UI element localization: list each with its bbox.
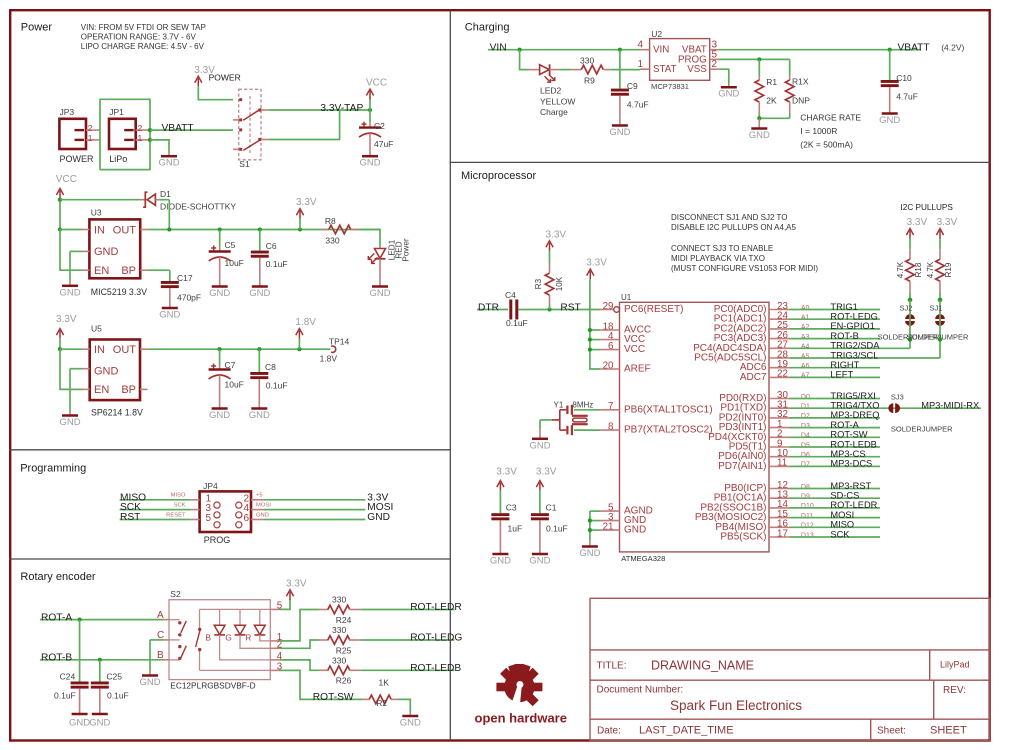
supply VCC arrow at 3.3V-TAP [369, 98, 371, 111]
svg-text:GND: GND [159, 310, 180, 321]
svg-text:GND: GND [69, 718, 90, 729]
svg-text:Rotary encoder: Rotary encoder [20, 571, 96, 583]
svg-text:A1: A1 [801, 315, 810, 322]
svg-text:C2: C2 [374, 121, 385, 131]
svg-text:6: 6 [244, 513, 250, 524]
svg-text:Y1: Y1 [554, 401, 564, 410]
svg-text:C8: C8 [265, 362, 276, 372]
junction at U3 IN [58, 227, 62, 231]
JP3 pin 1 [86, 139, 100, 141]
svg-text:PB5(SCK): PB5(SCK) [720, 532, 766, 543]
ground below C9 [612, 124, 628, 127]
wire VIN to LED2 [520, 50, 530, 70]
svg-text:ROT-B: ROT-B [41, 653, 72, 664]
connector JP1 LiPo [109, 119, 136, 149]
svg-text:0.1uF: 0.1uF [546, 524, 568, 534]
svg-text:330: 330 [580, 56, 594, 66]
capacitor C17 470pF [148, 269, 170, 271]
svg-text:PB6(XTAL1TOSC1): PB6(XTAL1TOSC1) [624, 404, 713, 415]
svg-text:TRIG2/SDA: TRIG2/SDA [830, 341, 880, 351]
svg-text:D12: D12 [801, 523, 814, 530]
svg-text:G: G [225, 633, 232, 643]
svg-text:Microprocessor: Microprocessor [461, 170, 537, 182]
svg-text:D10: D10 [801, 503, 814, 510]
svg-text:MP3-MIDI-RX: MP3-MIDI-RX [921, 401, 979, 411]
svg-text:LAST_DATE_TIME: LAST_DATE_TIME [639, 725, 734, 737]
svg-text:VIN: VIN [490, 43, 507, 54]
junction R19/SJ1 [938, 298, 943, 303]
svg-text:REV:: REV: [943, 685, 966, 696]
svg-text:TRIG5/RXI: TRIG5/RXI [830, 391, 875, 401]
svg-text:3.3V-TAP: 3.3V-TAP [320, 103, 363, 114]
svg-text:Charge: Charge [540, 107, 568, 117]
capacitor C6 0.1uF [258, 227, 262, 231]
junction AVCC [588, 328, 592, 332]
wire U5 IN [60, 348, 82, 350]
svg-text:R1X: R1X [792, 77, 809, 87]
svg-text:Spark Fun Electronics: Spark Fun Electronics [670, 698, 802, 713]
junction D1/OUT [167, 227, 171, 231]
svg-text:SP6214 1.8V: SP6214 1.8V [91, 408, 143, 418]
microcontroller U1 ATMEGA328 [620, 302, 770, 552]
svg-text:C5: C5 [225, 240, 236, 250]
wire R18 through SJ2 to TRIG2/SDA [909, 300, 911, 348]
svg-text:SCK: SCK [174, 503, 186, 509]
wire R9 to STAT [611, 69, 640, 71]
diode D1 DIODE-SCHOTTKY [60, 199, 140, 201]
ground below C24 [72, 713, 88, 716]
svg-text:A3: A3 [801, 334, 810, 341]
svg-text:5: 5 [206, 513, 212, 524]
svg-text:A0: A0 [801, 305, 810, 312]
svg-text:GND: GND [94, 366, 119, 378]
svg-text:U3: U3 [91, 207, 102, 217]
svg-text:OUT: OUT [113, 224, 137, 236]
svg-text:I2C PULLUPS: I2C PULLUPS [901, 203, 954, 212]
wire OUT 3.3V rail [148, 229, 381, 231]
svg-text:10K: 10K [555, 276, 564, 291]
svg-text:SCK: SCK [830, 529, 850, 539]
svg-text:0.1uF: 0.1uF [506, 318, 528, 328]
svg-text:RESET: RESET [166, 512, 186, 518]
svg-text:GND: GND [529, 556, 550, 567]
ground below R2 [402, 715, 418, 718]
svg-text:ROT-LEDR: ROT-LEDR [410, 602, 462, 613]
wire SCK [120, 509, 191, 511]
svg-text:A4: A4 [801, 344, 810, 351]
junction VBATT/C10 [888, 48, 892, 52]
svg-text:Programming: Programming [20, 462, 86, 474]
svg-text:VSS: VSS [687, 64, 707, 75]
svg-text:JP4: JP4 [203, 481, 218, 491]
svg-text:MP3-DREQ: MP3-DREQ [830, 410, 879, 420]
wire to GND [264, 519, 365, 521]
svg-text:S2: S2 [170, 589, 181, 599]
ground symbol below JP1 [168, 152, 170, 157]
wire U5 OUT 1.8V rail [148, 348, 331, 350]
wire JP1 pin1 to ground [150, 140, 169, 152]
switch S1 DPDT [239, 89, 261, 160]
svg-text:MOSI: MOSI [256, 503, 271, 509]
svg-text:TRIG1: TRIG1 [830, 302, 857, 312]
svg-text:OUT: OUT [113, 344, 137, 356]
U2 pin 3 [710, 49, 719, 51]
junction at JP1 pin2 VBATT [148, 128, 152, 132]
svg-text:SJ3: SJ3 [891, 393, 904, 402]
ground below S2 C pin [142, 674, 158, 677]
S2 pin 1 [270, 640, 280, 642]
svg-text:A: A [157, 610, 164, 621]
svg-text:4.7K: 4.7K [896, 261, 905, 278]
svg-text:OPERATION RANGE: 3.7V - 6V: OPERATION RANGE: 3.7V - 6V [81, 33, 197, 42]
junction R1 bottom [757, 116, 761, 120]
svg-text:0.1uF: 0.1uF [266, 259, 288, 269]
U3 pin stubs [82, 229, 89, 231]
resistor R24 330 [320, 609, 329, 611]
supply 3.3V above R3 [549, 243, 551, 251]
svg-text:CHARGE RATE: CHARGE RATE [800, 113, 861, 123]
title block frame [590, 598, 990, 740]
svg-text:POWER: POWER [60, 154, 95, 164]
svg-text:GND: GND [209, 410, 230, 421]
svg-text:B: B [205, 633, 211, 643]
svg-text:3.3V: 3.3V [586, 258, 607, 269]
svg-text:DTR: DTR [478, 303, 499, 314]
wire ROT-A [40, 619, 164, 621]
svg-text:JP1: JP1 [109, 107, 124, 117]
svg-text:ROT-LEDG: ROT-LEDG [410, 633, 462, 644]
supply 3.3V for R19 [939, 231, 941, 239]
svg-text:D6: D6 [801, 452, 810, 459]
svg-text:TP14: TP14 [329, 336, 350, 346]
svg-text:VCC: VCC [366, 78, 387, 89]
S2 center switch [198, 628, 201, 631]
svg-text:GND: GND [89, 718, 110, 729]
svg-text:GND: GND [718, 89, 739, 100]
svg-text:DRAWING_NAME: DRAWING_NAME [651, 659, 754, 673]
svg-text:GND: GND [609, 127, 630, 138]
svg-text:RST: RST [560, 303, 580, 314]
junction PROG/R1 [757, 57, 761, 61]
JP4 pin 3 [190, 509, 199, 511]
svg-text:GND: GND [249, 410, 270, 421]
wire loop connecting JP3 and JP1 [100, 99, 150, 169]
svg-text:2: 2 [88, 123, 93, 133]
section divider Charging/Microprocessor [450, 161, 989, 163]
svg-text:ROT-SW: ROT-SW [830, 430, 867, 440]
ground below C3 [492, 553, 508, 556]
wire LED2 to R9 [559, 69, 571, 71]
JP4 pin 5 [190, 519, 199, 521]
svg-text:C1: C1 [546, 503, 557, 513]
supply 3.3V arrow rotary [280, 599, 290, 609]
svg-text:ROT-A: ROT-A [830, 420, 859, 430]
wire R2 to ground [398, 699, 410, 712]
svg-text:SD-CS: SD-CS [830, 491, 859, 501]
wire VBAT to VBATT [719, 49, 921, 51]
svg-text:GND: GND [158, 158, 179, 169]
svg-text:PB7(XTAL2TOSC2): PB7(XTAL2TOSC2) [624, 425, 713, 436]
LED LED2 YELLOW Charge [529, 69, 540, 71]
svg-text:ROT-A: ROT-A [41, 612, 72, 623]
svg-text:GND: GND [879, 115, 900, 126]
svg-text:330: 330 [332, 625, 346, 635]
svg-text:YELLOW: YELLOW [540, 96, 575, 106]
svg-text:DIODE-SCHOTTKY: DIODE-SCHOTTKY [160, 202, 236, 212]
svg-text:C: C [157, 630, 164, 641]
svg-text:0.1uF: 0.1uF [107, 691, 129, 701]
rotary encoder S2 EC12PLRGBSDVBF-D [169, 600, 270, 680]
svg-text:R25: R25 [336, 645, 352, 655]
svg-text:D3: D3 [801, 423, 810, 430]
ground below C17 [162, 307, 178, 310]
svg-text:Date:: Date: [597, 725, 621, 736]
resistor R3 10K [549, 305, 551, 310]
junction 3.3V-TAP [368, 108, 372, 112]
U5 pin stubs [82, 348, 90, 350]
svg-text:U5: U5 [91, 323, 102, 333]
svg-text:A6: A6 [801, 363, 810, 370]
S2 LED verticals [219, 609, 221, 625]
U2 pin 2 [710, 68, 719, 70]
capacitor C10 4.7uF [889, 50, 891, 80]
junction at JP1 pin1 GND [148, 138, 152, 142]
wire 3.3V to AVCC/VCC/AREF [590, 279, 600, 369]
svg-text:(MUST CONFIGURE VS1053 FOR MID: (MUST CONFIGURE VS1053 FOR MIDI) [671, 264, 818, 273]
svg-text:C9: C9 [627, 81, 638, 91]
svg-text:ROT-LEDB: ROT-LEDB [830, 439, 877, 449]
ground below R1 [751, 127, 767, 130]
svg-text:TRIG3/SCL: TRIG3/SCL [830, 350, 878, 360]
svg-text:3.3V: 3.3V [546, 229, 567, 240]
svg-text:LED2: LED2 [540, 86, 562, 96]
svg-text:SOLDERJUMPER: SOLDERJUMPER [891, 424, 953, 433]
wire VCC down to EN [60, 230, 82, 271]
S1 arm pole2 [243, 139, 261, 150]
junction VCC/D1 [58, 198, 62, 202]
ground below C7 [212, 407, 228, 410]
capacitor C25 0.1uF [99, 660, 101, 682]
svg-text:2: 2 [138, 123, 143, 133]
junction at U5 IN [58, 347, 62, 351]
wire ROT-LEDB [360, 669, 454, 671]
wire S2 pin3 ROT-SW [280, 670, 362, 699]
ground below U3 [62, 285, 78, 288]
svg-text:GND: GND [249, 288, 270, 299]
svg-text:GND: GND [624, 525, 646, 536]
capacitor C9 4.7uF [619, 50, 621, 89]
junction R18/SJ2 [908, 298, 913, 303]
svg-text:R26: R26 [336, 676, 352, 686]
wire to MOSI [264, 509, 365, 511]
section divider Power/Programming [9, 449, 450, 451]
resistor R1 2K [758, 59, 760, 75]
S2 arm C-B [181, 646, 187, 658]
LED B inside S2 [214, 625, 225, 634]
S1 throw stubs [233, 119, 241, 121]
svg-text:17: 17 [777, 528, 788, 539]
ground below C25 [92, 713, 108, 716]
svg-text:GND: GND [359, 158, 380, 169]
S1 contacts [239, 98, 242, 101]
svg-text:(4.2V): (4.2V) [941, 43, 964, 53]
svg-text:R9: R9 [584, 75, 595, 85]
svg-text:MOSI: MOSI [830, 510, 854, 520]
wire to 3.3V [264, 499, 365, 501]
resistor R8 330 [321, 229, 329, 231]
JP1 pin 1 [136, 139, 150, 141]
svg-text:R8: R8 [325, 216, 336, 226]
wire AGND/GND pins to ground [590, 510, 600, 512]
svg-text:4.7uF: 4.7uF [896, 92, 918, 102]
test point TP14 [331, 346, 336, 352]
svg-text:R2: R2 [376, 698, 387, 708]
U2 pin 4 [640, 49, 650, 51]
svg-text:U2: U2 [651, 29, 662, 39]
JP4 pin 4 [236, 512, 242, 518]
LED R inside S2 [254, 625, 265, 634]
ground below U5 [62, 414, 78, 417]
ground below C10 [882, 112, 898, 115]
resistor R2 1K [362, 698, 369, 700]
svg-text:TITLE:: TITLE: [597, 660, 627, 671]
S2 LED G to pin2 [240, 635, 270, 648]
svg-text:GND: GND [367, 512, 390, 523]
LED LED1 RED Power [379, 247, 381, 249]
svg-text:D9: D9 [801, 494, 810, 501]
svg-text:330: 330 [325, 236, 339, 246]
svg-text:MCP73831: MCP73831 [651, 82, 689, 91]
svg-text:LilyPad: LilyPad [940, 660, 970, 670]
svg-text:ATMEGA328: ATMEGA328 [621, 554, 665, 563]
svg-text:1.8V: 1.8V [295, 317, 316, 328]
svg-text:C10: C10 [896, 73, 912, 83]
resistor R19 4.7K [939, 239, 941, 250]
svg-text:C24: C24 [60, 672, 76, 682]
svg-text:1: 1 [88, 133, 93, 143]
svg-text:PD7(AIN1): PD7(AIN1) [718, 461, 766, 472]
svg-text:R3: R3 [534, 278, 543, 289]
junction VIN/LED2 [518, 48, 522, 52]
ground below VSS [721, 86, 737, 89]
wire DTR [477, 309, 508, 311]
S2 bottom bus to pin 3 [200, 669, 271, 671]
svg-text:GND: GND [94, 246, 119, 258]
svg-text:R18: R18 [914, 262, 923, 277]
wire RST [120, 519, 191, 521]
svg-text:MIDI PLAYBACK VIA TXO: MIDI PLAYBACK VIA TXO [671, 254, 765, 263]
svg-text:1: 1 [637, 59, 643, 70]
S2 rotary contacts [169, 619, 180, 621]
svg-text:330: 330 [332, 595, 346, 605]
S2 pin 2 [270, 647, 280, 649]
svg-text:EC12PLRGBSDVBF-D: EC12PLRGBSDVBF-D [170, 680, 255, 690]
svg-text:ROT-SW: ROT-SW [313, 692, 354, 703]
svg-text:0.1uF: 0.1uF [266, 380, 288, 390]
capacitor C2 47uF [369, 110, 371, 122]
svg-text:GND: GND [369, 288, 390, 299]
JP4 pin 1 [190, 499, 199, 501]
svg-text:470pF: 470pF [177, 293, 201, 303]
svg-text:D13: D13 [801, 532, 814, 539]
section divider Programming/Rotary encoder [9, 558, 450, 560]
svg-text:+5: +5 [256, 493, 263, 499]
supply 3.3V POWER arrow [197, 78, 199, 86]
wire IN [60, 229, 82, 231]
svg-text:3.3V: 3.3V [536, 467, 557, 478]
svg-text:PC6(RESET): PC6(RESET) [624, 304, 683, 315]
svg-text:47uF: 47uF [374, 139, 393, 149]
junction RST/R3 [547, 307, 551, 311]
svg-text:C17: C17 [177, 273, 193, 283]
svg-text:C6: C6 [266, 241, 277, 251]
svg-text:(2K = 500mA): (2K = 500mA) [800, 140, 853, 150]
S1 common stubs [261, 109, 268, 111]
svg-text:11: 11 [777, 458, 787, 469]
wire VIN [488, 49, 640, 51]
wire VCC to IN of U3 [59, 199, 61, 230]
svg-text:AREF: AREF [624, 364, 651, 375]
svg-text:IN: IN [94, 224, 105, 236]
svg-text:VBATT: VBATT [162, 123, 194, 134]
crystal Y1 8MHz resonator [574, 409, 600, 411]
svg-text:D4: D4 [801, 433, 810, 440]
wire VSS to ground [719, 69, 729, 84]
svg-text:A7: A7 [801, 373, 810, 380]
solder jumper SJ2 [905, 314, 915, 319]
connector JP3 POWER [59, 119, 86, 149]
svg-text:Charging: Charging [465, 22, 510, 34]
ground below C5 [212, 285, 228, 288]
LED G inside S2 [235, 625, 246, 634]
svg-text:GND: GND [59, 417, 80, 428]
solder jumper SJ1 [935, 314, 945, 319]
svg-text:2K: 2K [766, 95, 777, 105]
svg-text:VIN: VIN [653, 45, 669, 56]
junction ROT-B / C25 [98, 658, 102, 662]
S2 arm A-C [181, 621, 187, 633]
svg-text:VCC: VCC [56, 174, 77, 185]
capacitor C8 0.1uF [257, 347, 261, 351]
svg-text:Power: Power [21, 21, 53, 33]
svg-text:3.3V: 3.3V [496, 467, 517, 478]
svg-text:IN: IN [94, 344, 105, 356]
capacitor C24 0.1uF [79, 620, 81, 682]
resistor R9 330 [571, 69, 582, 71]
svg-text:2: 2 [712, 59, 718, 70]
svg-text:1K: 1K [379, 678, 390, 688]
resistor R1X DNP [789, 59, 791, 75]
JP4 pin 2 [236, 502, 242, 508]
ground below C2 [362, 155, 378, 158]
svg-text:LEFT: LEFT [830, 370, 853, 380]
JP4 pin 6 [236, 522, 242, 528]
svg-text:0.1uF: 0.1uF [54, 691, 76, 701]
svg-text:R24: R24 [336, 615, 352, 625]
svg-text:C25: C25 [106, 672, 122, 682]
supply 3.3V for R18 [909, 231, 911, 239]
resistor R18 4.7K [909, 239, 911, 250]
svg-text:10uF: 10uF [225, 258, 244, 268]
section divider vertical [449, 10, 451, 740]
wire D1 to OUT net [168, 200, 170, 230]
svg-text:STAT: STAT [653, 64, 677, 75]
supply 3.3V arrow on OUT rail [298, 227, 302, 231]
svg-text:GND: GND [209, 288, 230, 299]
svg-text:GND: GND [256, 512, 269, 518]
connector JP4 PROG [200, 491, 251, 532]
svg-text:BP: BP [121, 384, 136, 396]
